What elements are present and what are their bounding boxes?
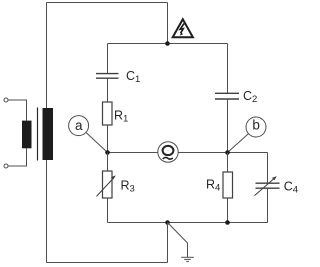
transformer T1 core	[37, 108, 39, 161]
wire primary top lead	[8, 100, 27, 121]
wire mid horizontal right (detector to node b junction and C4 branch)	[178, 152, 267, 154]
wire R1 bottom lead	[107, 125, 109, 153]
wire top horizontal from secondary top to HV node	[47, 2, 168, 4]
resistor R1	[103, 102, 113, 125]
resistor R3 variable	[97, 171, 116, 198]
wire node b diagonal	[228, 134, 249, 153]
wire R3 top lead	[107, 153, 109, 172]
warning triangle high-voltage symbol	[173, 19, 193, 37]
detector galvanometer	[158, 142, 178, 162]
transformer T1 primary terminal bottom	[4, 164, 8, 168]
node junction dot top	[165, 41, 170, 46]
resistor R4	[223, 172, 233, 198]
wire mid horizontal left (junction to detector)	[108, 152, 159, 154]
capacitor C2	[215, 93, 239, 99]
transformer T1 primary winding	[22, 121, 32, 149]
wire bottom return horizontal	[47, 262, 168, 264]
capacitor C1	[96, 74, 119, 79]
wire between C1 and R1	[107, 78, 109, 102]
node junction dot right mid	[225, 150, 230, 155]
wire primary bottom lead	[8, 148, 27, 166]
node junction dot left mid	[105, 150, 110, 155]
wire bottom return vertical	[167, 223, 169, 263]
wire C2 bottom lead	[227, 99, 229, 153]
node junction dot bottom right	[225, 220, 230, 225]
node a terminal circle	[69, 116, 89, 136]
node junction dot bottom center	[165, 220, 170, 225]
wire C2 top lead	[227, 44, 229, 94]
wire ground stem	[187, 243, 189, 257]
wire R3 bottom lead	[107, 198, 109, 223]
svg-text:b: b	[252, 118, 260, 133]
wire ground diagonal	[168, 223, 188, 244]
svg-text:a: a	[75, 118, 83, 133]
wire left vertical secondary top lead	[46, 3, 48, 109]
wire C1 top lead	[107, 44, 109, 74]
wire C4 bottom lead	[267, 188, 269, 222]
node b terminal circle	[246, 117, 266, 137]
wire bridge top horizontal	[108, 43, 228, 45]
wire R4 bottom lead	[227, 198, 229, 223]
ground symbol	[181, 257, 194, 261]
transformer T1 secondary winding	[43, 108, 54, 160]
wire R4 top lead	[227, 153, 229, 173]
wire bridge bottom horizontal	[108, 222, 268, 224]
transformer T1 primary terminal top	[4, 98, 8, 102]
capacitor C4 variable	[255, 176, 280, 196]
wire secondary bottom lead	[46, 160, 48, 263]
wire HV drop vertical	[167, 3, 169, 44]
wire C4 top lead	[267, 153, 269, 184]
wire node a diagonal	[86, 132, 108, 152]
